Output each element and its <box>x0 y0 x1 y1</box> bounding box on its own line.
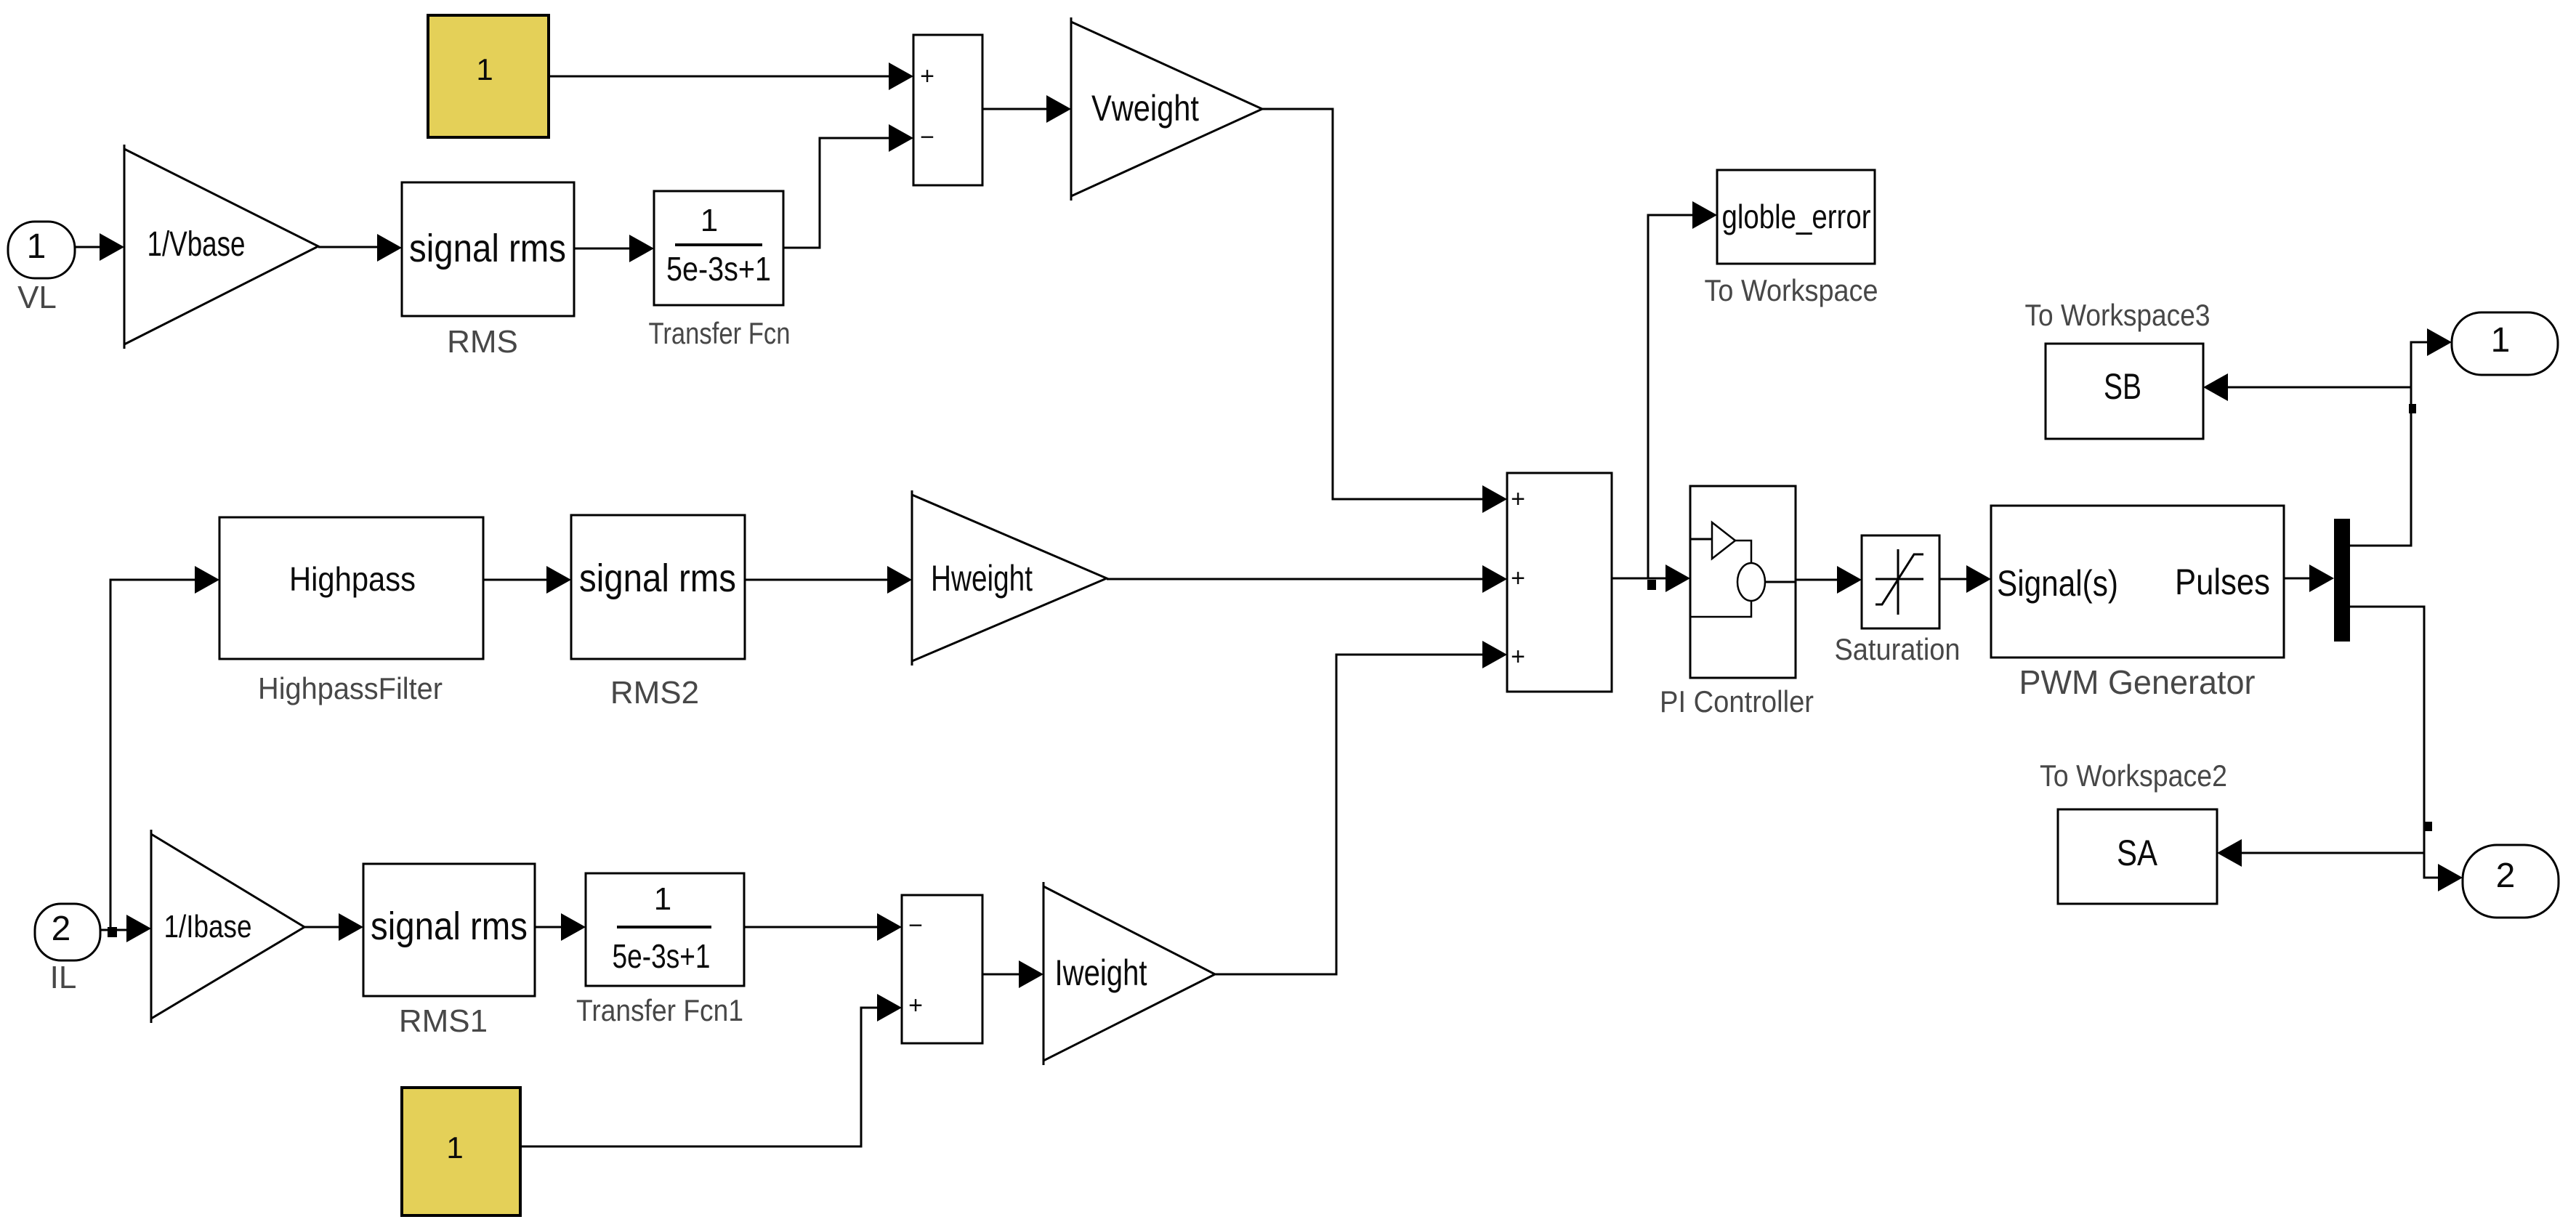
block To Workspace (globle_error) <box>1705 170 1878 307</box>
svg-text:+: + <box>1511 565 1525 592</box>
svg-text:1: 1 <box>476 52 493 86</box>
svg-text:Transfer Fcn: Transfer Fcn <box>649 316 791 350</box>
svg-text:Hweight: Hweight <box>931 558 1033 599</box>
sum block (+ -) <box>913 35 982 185</box>
wire RMS to Transfer Fcn <box>574 235 654 262</box>
gain Vweight <box>1071 17 1262 201</box>
wire PWM to demux <box>2284 565 2334 592</box>
wire sum3 to PI Controller <box>1612 565 1690 592</box>
wire RMS1 to Transfer Fcn1 <box>535 913 586 941</box>
block SB (To Workspace3) <box>2025 298 2210 439</box>
wire sum2 to Iweight <box>982 960 1043 988</box>
wire junction to SA <box>2217 839 2424 867</box>
svg-text:1/Ibase: 1/Ibase <box>164 909 252 944</box>
svg-text:To Workspace3: To Workspace3 <box>2025 298 2210 332</box>
wire Iweight to sum3 input 3 <box>1215 641 1507 974</box>
svg-text:signal rms: signal rms <box>579 557 736 600</box>
svg-text:Highpass: Highpass <box>289 560 416 598</box>
svg-text:SB: SB <box>2104 366 2141 407</box>
gain Hweight <box>912 490 1107 665</box>
svg-text:+: + <box>908 992 923 1019</box>
svg-text:1: 1 <box>446 1130 463 1165</box>
wire junction to SB <box>2203 373 2411 401</box>
output port 2 <box>2463 845 2559 918</box>
svg-text:Vweight: Vweight <box>1091 88 1199 129</box>
gain 1/Ibase <box>151 830 304 1023</box>
svg-text:1/Vbase: 1/Vbase <box>148 225 246 264</box>
wire VL to 1/Vbase <box>76 233 124 261</box>
svg-text:+: + <box>920 62 934 90</box>
block RMS (signal rms) <box>402 182 574 360</box>
svg-text:Iweight: Iweight <box>1055 952 1147 993</box>
wire Transfer Fcn to sum (-) <box>783 124 913 248</box>
wire constant to sum (+) <box>549 62 913 90</box>
svg-text:5e-3s+1: 5e-3s+1 <box>613 937 711 975</box>
svg-text:VL: VL <box>17 280 57 315</box>
constant 1 (yellow, bottom) <box>402 1088 520 1215</box>
wire Hweight to sum3 input 2 <box>1107 565 1507 593</box>
wire Transfer Fcn1 to sum2 (-) <box>744 913 902 941</box>
block Transfer Fcn <box>649 191 791 350</box>
svg-text:RMS: RMS <box>447 324 518 360</box>
input port 2 (IL) <box>35 904 100 995</box>
wire RMS2 to Hweight <box>745 566 912 594</box>
svg-text:+: + <box>1511 643 1525 671</box>
gain 1/Vbase <box>124 145 318 349</box>
block PI Controller <box>1660 486 1814 719</box>
sum2 block (- +) <box>902 895 982 1043</box>
block PWM Generator <box>1991 506 2284 701</box>
svg-text:Signal(s): Signal(s) <box>1997 563 2118 604</box>
svg-text:RMS1: RMS1 <box>399 1003 488 1039</box>
svg-text:+: + <box>1511 485 1525 513</box>
wire sum to Vweight <box>982 95 1071 123</box>
sum3 block (+ + +) <box>1507 473 1612 692</box>
wire demux to out port 2 <box>2350 607 2463 891</box>
block HighpassFilter <box>219 517 483 705</box>
svg-text:Saturation: Saturation <box>1835 632 1961 666</box>
svg-text:2: 2 <box>2496 857 2516 895</box>
svg-text:−: − <box>908 912 923 939</box>
svg-text:Pulses: Pulses <box>2175 562 2270 602</box>
svg-text:globle_error: globle_error <box>1722 198 1871 235</box>
svg-text:HighpassFilter: HighpassFilter <box>258 671 443 705</box>
svg-text:RMS2: RMS2 <box>610 675 699 711</box>
svg-text:5e-3s+1: 5e-3s+1 <box>666 250 771 288</box>
block RMS2 (signal rms) <box>571 515 745 711</box>
block RMS1 (signal rms) <box>363 864 535 1039</box>
node SB junction <box>2409 404 2416 413</box>
wire 1/Ibase to RMS1 <box>304 913 363 941</box>
svg-text:1: 1 <box>27 227 47 266</box>
wire Highpass to RMS2 <box>483 566 571 594</box>
svg-text:−: − <box>920 124 934 151</box>
svg-text:Transfer Fcn1: Transfer Fcn1 <box>576 993 743 1027</box>
svg-text:1: 1 <box>654 881 671 917</box>
node SA junction <box>2425 822 2432 831</box>
demux <box>2334 519 2350 642</box>
wire IL to 1/Ibase <box>100 915 151 942</box>
svg-text:signal rms: signal rms <box>409 227 566 270</box>
wire branch to globle_error <box>1648 201 1717 578</box>
output port 1 <box>2452 312 2558 375</box>
wire Saturation to PWM Generator <box>1939 565 1991 593</box>
input port 1 (VL) <box>8 222 75 315</box>
wire Vweight to sum3 input 1 <box>1262 109 1507 513</box>
node error branch junction <box>1647 580 1656 590</box>
block Transfer Fcn1 <box>576 873 744 1027</box>
wire 1/Vbase to RMS <box>318 234 402 262</box>
gain Iweight <box>1043 882 1215 1065</box>
svg-text:PWM Generator: PWM Generator <box>2019 663 2256 701</box>
svg-text:PI Controller: PI Controller <box>1660 684 1814 719</box>
svg-text:SA: SA <box>2117 833 2158 873</box>
svg-text:1: 1 <box>2491 321 2511 360</box>
svg-text:To Workspace2: To Workspace2 <box>2040 758 2227 793</box>
constant 1 (yellow, top) <box>428 15 549 137</box>
wire demux to out port 1 <box>2350 328 2452 546</box>
wire IL branch to Highpass <box>110 566 219 930</box>
block Saturation <box>1835 535 1961 666</box>
svg-text:IL: IL <box>50 960 77 995</box>
wire constant to sum2 (+) <box>520 994 902 1146</box>
wire PI Controller to Saturation <box>1796 566 1862 594</box>
block SA (To Workspace2) <box>2040 758 2227 904</box>
svg-text:2: 2 <box>52 910 71 948</box>
svg-text:signal rms: signal rms <box>371 905 528 948</box>
svg-text:1: 1 <box>700 203 718 238</box>
node IL branch junction <box>108 927 117 937</box>
svg-text:To Workspace: To Workspace <box>1705 273 1878 307</box>
